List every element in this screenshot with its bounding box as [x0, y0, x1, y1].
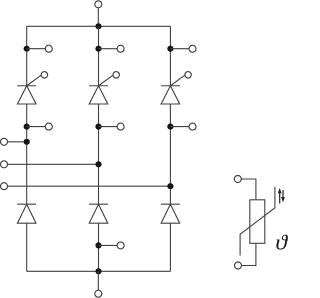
wire thermistor top [241, 179, 256, 200]
temperature dependence stroke [240, 187, 275, 256]
node left anode tap [24, 124, 30, 130]
resistor body [250, 200, 265, 244]
wire phase 1 [8, 141, 27, 143]
node left cathode tap [24, 46, 30, 52]
node middle cathode tap [95, 46, 101, 52]
terminal thermistor bottom [235, 262, 242, 269]
node bottom bus junction [95, 268, 101, 274]
wire right anode stub [170, 126, 189, 128]
node phase 2 junction [95, 161, 101, 167]
wire middle anode stub [99, 126, 118, 128]
wire middle cathode stub [99, 48, 118, 50]
wire bottom bus [27, 270, 171, 272]
wire left leg upper [26, 26, 28, 85]
wire middle leg upper [98, 26, 100, 85]
terminal top DC [95, 1, 102, 8]
terminal bottom DC [95, 290, 102, 297]
terminal right cathode [189, 45, 196, 52]
wire middle bottom stub [99, 244, 118, 246]
wire phase 2 [8, 163, 99, 165]
label theta [276, 235, 288, 250]
wire left anode stub [27, 126, 46, 128]
node right anode tap [167, 124, 173, 130]
node middle bottom tap [95, 242, 101, 248]
terminal AC phase 1 [1, 138, 8, 145]
terminal middle cathode [117, 45, 124, 52]
terminal thermistor top [234, 176, 241, 183]
node top bus junction [95, 23, 101, 29]
diode V4 [17, 204, 36, 223]
wire right cathode stub [170, 48, 189, 50]
terminal middle bottom [117, 242, 124, 249]
wire left leg middle [26, 104, 28, 204]
arrow up [279, 193, 281, 204]
node phase 1 junction [24, 139, 30, 145]
node middle anode tap [95, 124, 101, 130]
wire left cathode stub [27, 48, 46, 50]
thermistor R1 [234, 176, 285, 270]
wire top bus [27, 25, 171, 27]
node right cathode tap [167, 46, 173, 52]
thyristor V1 [17, 72, 47, 104]
wire right leg lower [169, 223, 171, 271]
node phase 3 junction [167, 183, 173, 189]
wire bottom terminal lead [97, 271, 99, 290]
diode V5 [89, 204, 108, 223]
wire top terminal to bus [97, 8, 99, 26]
thyristor V2 [89, 72, 119, 104]
wire left leg lower [26, 223, 28, 271]
thyristor V3 [161, 72, 191, 104]
terminal right anode [189, 123, 196, 130]
wire middle leg middle [98, 104, 100, 204]
diode V6 [161, 204, 180, 223]
terminal AC phase 3 [1, 183, 8, 190]
terminal middle anode [117, 123, 124, 130]
wire right leg middle [169, 104, 171, 204]
wire right leg upper [169, 26, 171, 85]
wire middle leg lower [98, 223, 100, 271]
arrow down [282, 190, 284, 198]
terminal left anode [45, 123, 52, 130]
terminal AC phase 2 [1, 161, 8, 168]
wire thermistor bottom [242, 243, 256, 265]
terminal left cathode [45, 45, 52, 52]
wire phase 3 [8, 185, 171, 187]
